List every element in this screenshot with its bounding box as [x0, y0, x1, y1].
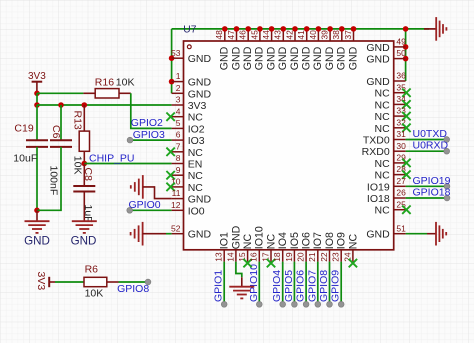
- svg-text:GND: GND: [219, 46, 231, 70]
- svg-text:GPIO6: GPIO6: [295, 270, 307, 302]
- svg-text:GND: GND: [366, 229, 390, 241]
- pin 28 NC: [394, 174, 406, 176]
- wire GPIO1: [223, 262, 225, 305]
- pin 41 GND: [306, 29, 308, 41]
- svg-text:51: 51: [396, 223, 406, 233]
- svg-text:GND: GND: [301, 46, 313, 70]
- pin 19 IO5: [293, 250, 295, 262]
- pin 21 IO7: [317, 250, 319, 262]
- wire GPIO9: [340, 262, 342, 305]
- node junction top-right: [403, 26, 409, 32]
- wire GPIO0: [130, 209, 172, 211]
- svg-text:GND: GND: [289, 46, 301, 70]
- svg-text:23: 23: [331, 252, 341, 262]
- node junction C6 tap: [58, 102, 64, 108]
- svg-text:GPIO1: GPIO1: [213, 270, 225, 302]
- svg-text:IO0: IO0: [188, 205, 205, 217]
- pin 39 GND: [329, 29, 331, 41]
- svg-text:R16: R16: [95, 76, 114, 88]
- svg-text:NC: NC: [375, 99, 391, 111]
- svg-text:3V3: 3V3: [28, 71, 46, 82]
- svg-text:10K: 10K: [72, 156, 84, 175]
- svg-text:16: 16: [249, 252, 259, 262]
- pin 4 NC: [172, 116, 184, 118]
- svg-text:RXD0: RXD0: [362, 146, 390, 158]
- resistor R6: [107, 281, 119, 283]
- svg-text:4: 4: [176, 106, 181, 116]
- svg-text:GND: GND: [312, 46, 324, 70]
- svg-text:GND: GND: [366, 54, 390, 66]
- wire GND left drop: [171, 29, 173, 93]
- svg-text:GPIO18: GPIO18: [413, 187, 451, 199]
- svg-text:37: 37: [343, 30, 353, 40]
- wire GPIO7: [317, 262, 319, 305]
- wire GPIO5: [293, 262, 295, 305]
- svg-text:GND: GND: [242, 46, 254, 70]
- node junction 3V3-A: [34, 91, 40, 97]
- svg-text:GND: GND: [188, 194, 212, 206]
- svg-text:NC: NC: [375, 158, 391, 170]
- svg-text:5: 5: [176, 118, 181, 128]
- pin 8 EN: [172, 163, 184, 165]
- pin 48 GND: [224, 29, 226, 41]
- pin 7 NC: [172, 151, 184, 153]
- pin 20 IO6: [305, 250, 307, 262]
- svg-text:IO8: IO8: [324, 232, 336, 249]
- svg-text:53: 53: [171, 48, 181, 58]
- svg-text:49: 49: [396, 37, 406, 47]
- svg-text:3V3: 3V3: [188, 100, 207, 112]
- svg-text:14: 14: [225, 252, 235, 262]
- svg-text:46: 46: [238, 30, 248, 40]
- svg-text:GND: GND: [71, 235, 97, 248]
- node junction pin49: [403, 44, 409, 50]
- svg-text:2: 2: [176, 83, 181, 93]
- svg-text:GPIO0: GPIO0: [129, 199, 161, 211]
- svg-text:12: 12: [171, 200, 181, 210]
- svg-text:13: 13: [214, 252, 224, 262]
- ground pin14: [236, 262, 242, 278]
- svg-text:39: 39: [320, 30, 330, 40]
- svg-text:3: 3: [176, 95, 181, 105]
- svg-text:IO19: IO19: [367, 181, 390, 193]
- svg-text:18: 18: [272, 252, 282, 262]
- svg-text:GND: GND: [254, 46, 266, 70]
- svg-text:TXD0: TXD0: [363, 135, 390, 147]
- pin 40 GND: [317, 29, 319, 41]
- svg-text:NC: NC: [375, 111, 391, 123]
- pin 33 NC: [394, 115, 406, 117]
- wire U0TXD: [406, 139, 447, 141]
- svg-text:NC: NC: [375, 205, 391, 217]
- wire GPIO10: [258, 262, 260, 305]
- pin 1 GND: [172, 81, 184, 83]
- svg-text:GND: GND: [230, 46, 242, 70]
- pin 18 IO4: [282, 250, 284, 262]
- svg-text:NC: NC: [265, 234, 277, 250]
- capacitor C19: [36, 105, 38, 140]
- pin 12 IO0: [172, 209, 184, 211]
- svg-text:GND: GND: [347, 46, 359, 70]
- resistor R16: [83, 92, 95, 94]
- ground pin51: [406, 233, 427, 235]
- svg-text:NC: NC: [188, 170, 204, 182]
- pin 24 NC: [352, 250, 354, 262]
- wire 3V3 to R6: [55, 281, 84, 283]
- svg-text:40: 40: [308, 30, 318, 40]
- svg-text:GPIO9: GPIO9: [330, 270, 342, 302]
- svg-text:30: 30: [396, 141, 406, 151]
- pin 45 GND: [259, 29, 261, 41]
- pin 23 IO9: [340, 250, 342, 262]
- node junction CHIP_PU: [82, 161, 88, 167]
- pin 34 NC: [394, 103, 406, 105]
- svg-text:GND: GND: [188, 88, 212, 100]
- wire 3V3 rail to pin3: [37, 104, 172, 106]
- wire GPIO4: [282, 262, 284, 305]
- svg-text:44: 44: [261, 30, 271, 40]
- wire GPIO6: [305, 262, 307, 305]
- svg-text:45: 45: [249, 30, 259, 40]
- svg-text:C19: C19: [14, 123, 33, 135]
- pin 42 GND: [294, 29, 296, 41]
- svg-text:GPIO8: GPIO8: [318, 270, 330, 302]
- IC U7: [184, 41, 394, 250]
- svg-text:43: 43: [273, 30, 283, 40]
- wire R16 to IO2: [131, 93, 172, 128]
- svg-text:GND: GND: [230, 225, 242, 249]
- pin 35 NC: [394, 92, 406, 94]
- pin 51 GND: [394, 233, 406, 235]
- svg-text:GND: GND: [324, 46, 336, 70]
- node junction pin50: [403, 56, 409, 62]
- svg-text:GND: GND: [24, 235, 50, 248]
- svg-text:NC: NC: [188, 182, 204, 194]
- svg-text:GPIO2: GPIO2: [131, 117, 163, 129]
- svg-text:GPIO4: GPIO4: [271, 270, 283, 302]
- svg-text:20: 20: [296, 252, 306, 262]
- pin 11 GND: [172, 198, 184, 200]
- svg-text:6: 6: [176, 130, 181, 140]
- wire GND top rail: [172, 28, 429, 30]
- pin 49 GND: [394, 46, 406, 48]
- svg-text:50: 50: [396, 48, 406, 58]
- pin 30 RXD0: [394, 150, 406, 152]
- pin 38 GND: [341, 29, 343, 41]
- svg-text:GPIO10: GPIO10: [248, 264, 260, 302]
- svg-text:EN: EN: [188, 159, 203, 171]
- svg-text:27: 27: [396, 176, 406, 186]
- pin 25 NC: [394, 209, 406, 211]
- svg-text:42: 42: [284, 30, 294, 40]
- pin 16 IO10: [258, 250, 260, 262]
- svg-text:31: 31: [396, 129, 406, 139]
- wire GPIO3: [130, 139, 172, 141]
- svg-text:CHIP_PU: CHIP_PU: [89, 152, 135, 164]
- svg-text:IO10: IO10: [254, 226, 266, 249]
- svg-text:19: 19: [284, 252, 294, 262]
- svg-text:IO1: IO1: [219, 232, 231, 249]
- wire 3V3 rail drop: [36, 93, 38, 105]
- svg-text:22: 22: [319, 252, 329, 262]
- ground pin11: [142, 175, 144, 199]
- svg-text:GND: GND: [188, 229, 212, 241]
- pin 44 GND: [271, 29, 273, 41]
- pin 22 IO8: [329, 250, 331, 262]
- pin 3 3V3: [172, 104, 184, 106]
- svg-text:NC: NC: [188, 147, 204, 159]
- svg-text:IO4: IO4: [277, 232, 289, 249]
- node junction pin53: [169, 55, 175, 61]
- svg-text:IO2: IO2: [188, 123, 205, 135]
- pin 50 GND: [394, 58, 406, 60]
- svg-text:IO6: IO6: [301, 232, 313, 249]
- svg-text:NC: NC: [242, 234, 254, 250]
- svg-text:47: 47: [226, 30, 236, 40]
- svg-text:1uF: 1uF: [82, 205, 94, 223]
- svg-text:GND: GND: [188, 77, 212, 89]
- svg-text:GPIO7: GPIO7: [306, 270, 318, 302]
- ground top-right: [424, 28, 436, 30]
- pin 9 NC: [172, 174, 184, 176]
- svg-text:26: 26: [396, 188, 406, 198]
- node junction 3V3-B: [34, 102, 40, 108]
- svg-text:38: 38: [331, 30, 341, 40]
- svg-text:GND: GND: [188, 53, 212, 65]
- wire R6 to GPIO8: [119, 281, 149, 283]
- svg-text:NC: NC: [347, 234, 359, 250]
- svg-text:GND: GND: [336, 46, 348, 70]
- ground C8: [72, 220, 97, 222]
- svg-text:GPIO3: GPIO3: [133, 129, 165, 141]
- svg-text:10uF: 10uF: [13, 153, 37, 165]
- resistor R13: [83, 105, 85, 131]
- svg-text:R13: R13: [72, 111, 84, 130]
- svg-text:GND: GND: [366, 42, 390, 54]
- wire GPIO8: [329, 262, 331, 305]
- svg-text:7: 7: [176, 141, 181, 151]
- pin 5 IO2: [172, 127, 184, 129]
- svg-text:48: 48: [214, 30, 224, 40]
- capacitor C6: [60, 105, 62, 140]
- svg-text:NC: NC: [375, 123, 391, 135]
- svg-text:C8: C8: [82, 168, 94, 182]
- svg-text:GPIO5: GPIO5: [283, 270, 295, 302]
- svg-text:U7: U7: [183, 24, 196, 35]
- svg-text:U0RXD: U0RXD: [413, 140, 449, 152]
- pin 52 GND: [172, 233, 184, 235]
- pin 10 NC: [172, 186, 184, 188]
- pin 27 IO19: [394, 185, 406, 187]
- pin 2 GND: [172, 92, 184, 94]
- svg-text:3V3: 3V3: [35, 272, 47, 291]
- svg-text:21: 21: [307, 252, 317, 262]
- svg-text:NC: NC: [188, 112, 204, 124]
- pin 14 GND: [235, 250, 237, 262]
- pin 43 GND: [282, 29, 284, 41]
- svg-text:10K: 10K: [116, 76, 135, 88]
- svg-text:IO18: IO18: [367, 193, 390, 205]
- svg-text:100nF: 100nF: [48, 166, 60, 196]
- svg-text:1: 1: [176, 71, 181, 81]
- pin 17 NC: [270, 250, 272, 262]
- pin 29 NC: [394, 162, 406, 164]
- svg-text:10K: 10K: [85, 288, 104, 300]
- wire GND right drop: [405, 29, 407, 81]
- svg-text:GND: GND: [265, 46, 277, 70]
- pin 13 IO1: [223, 250, 225, 262]
- svg-text:41: 41: [296, 30, 306, 40]
- pin 37 GND: [353, 29, 355, 41]
- pin 46 GND: [247, 29, 249, 41]
- pin 6 IO3: [172, 139, 184, 141]
- pin 32 NC: [394, 127, 406, 129]
- svg-text:52: 52: [171, 223, 181, 233]
- svg-text:GND: GND: [277, 46, 289, 70]
- wire GPIO18: [406, 197, 447, 199]
- svg-text:GND: GND: [366, 76, 390, 88]
- wire U0RXD: [406, 150, 447, 152]
- node junction pin1: [169, 79, 175, 85]
- svg-text:NC: NC: [375, 170, 391, 182]
- pin 36 GND: [394, 80, 406, 82]
- pin 53 GND: [172, 57, 184, 59]
- node junction C19-C6 gnd: [34, 208, 40, 214]
- pin 15 NC: [247, 250, 249, 262]
- svg-text:11: 11: [172, 188, 181, 198]
- node junction R13 tap: [82, 102, 88, 108]
- wire 3V3 to R16: [37, 92, 83, 94]
- svg-text:IO5: IO5: [289, 232, 301, 249]
- pin 31 TXD0: [394, 139, 406, 141]
- svg-text:8: 8: [176, 153, 181, 163]
- ground pin52: [142, 222, 144, 246]
- svg-text:U0TXD: U0TXD: [413, 128, 448, 140]
- wire GPIO19: [406, 185, 447, 187]
- svg-text:IO9: IO9: [336, 232, 348, 249]
- svg-text:IO3: IO3: [188, 135, 205, 147]
- svg-text:IO7: IO7: [312, 232, 324, 249]
- svg-text:GPIO19: GPIO19: [413, 175, 451, 187]
- svg-text:C6: C6: [50, 125, 62, 139]
- svg-text:36: 36: [396, 71, 406, 81]
- svg-text:9: 9: [176, 165, 181, 175]
- pin 26 IO18: [394, 197, 406, 199]
- svg-text:GPIO8: GPIO8: [117, 283, 149, 295]
- capacitor C8: [83, 164, 85, 187]
- wire CHIP_PU to EN: [84, 163, 171, 165]
- svg-text:NC: NC: [375, 88, 391, 100]
- ground C19-C6: [36, 210, 38, 221]
- svg-text:R6: R6: [85, 264, 99, 276]
- pin 47 GND: [236, 29, 238, 41]
